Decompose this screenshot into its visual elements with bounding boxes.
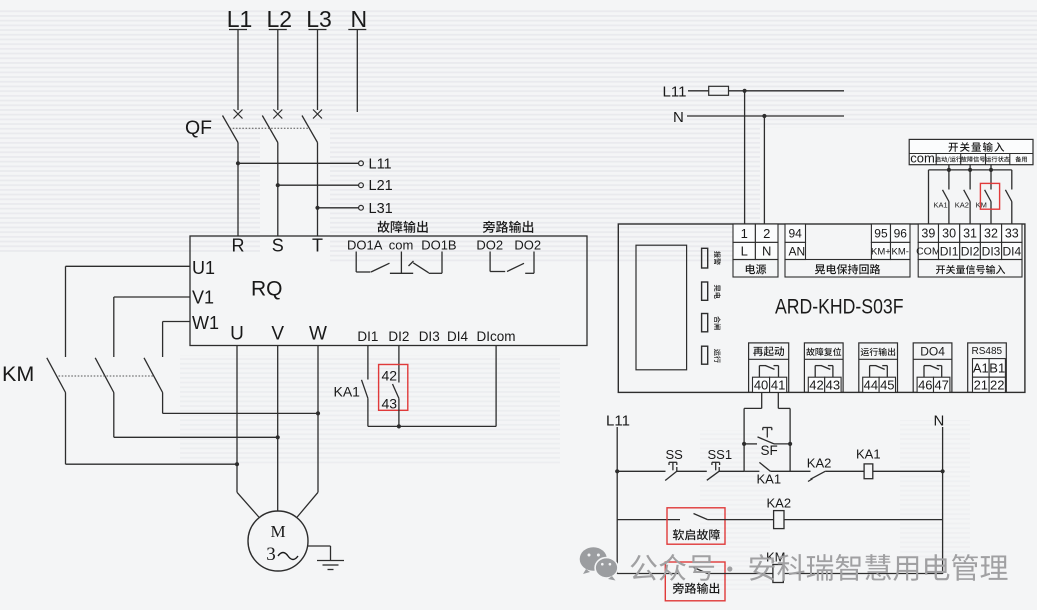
breaker QF pole 1 blade [223, 116, 239, 143]
terminal U [230, 324, 244, 345]
svg-text:31: 31 [963, 227, 977, 241]
svg-text:U: U [230, 324, 244, 345]
svg-text:KA1: KA1 [334, 384, 361, 400]
group 晃电保持回路 [785, 260, 910, 278]
terminal N [755, 242, 778, 259]
output group 运行输出 terminals 44 45 [859, 343, 898, 393]
svg-text:A1: A1 [973, 361, 989, 376]
wire DI1 drop [367, 346, 369, 380]
svg-text:V: V [271, 324, 284, 345]
wire KM pole2 to V [114, 393, 280, 440]
label 运行状态 [985, 156, 1009, 162]
svg-text:T: T [312, 236, 323, 256]
svg-text:KA1: KA1 [934, 201, 948, 210]
svg-text:1: 1 [741, 226, 748, 241]
contact KA1 to DI [934, 165, 949, 224]
breaker QF pole 2 contact mark [273, 110, 282, 119]
svg-text:L31: L31 [369, 201, 393, 217]
contact 42-43 on DI2 [382, 368, 399, 412]
node N control [673, 109, 844, 126]
terminal DO2 [476, 238, 503, 253]
svg-text:N: N [762, 244, 771, 259]
svg-text:SS: SS [666, 447, 684, 462]
wire DI2 to bus [398, 398, 400, 426]
wire U1 to KM [66, 266, 191, 357]
terminal R [232, 236, 245, 256]
left rail [616, 427, 618, 574]
svg-text:DI2: DI2 [388, 329, 409, 344]
svg-text:DO2: DO2 [514, 238, 541, 253]
svg-text:DO1A: DO1A [347, 238, 383, 253]
svg-text:47: 47 [934, 377, 948, 392]
terminal KM- [891, 242, 911, 259]
svg-text:N: N [934, 413, 945, 430]
breaker QF linkage [230, 127, 310, 129]
wire W1 to KM [163, 322, 190, 358]
svg-text:42: 42 [809, 377, 823, 392]
svg-text:43: 43 [826, 377, 840, 392]
output group 再起动 terminals 40 41 [749, 343, 789, 393]
right rail [942, 427, 944, 574]
node L11 ladder [606, 413, 630, 430]
svg-text:2: 2 [763, 226, 770, 241]
svg-text:L11: L11 [663, 84, 687, 101]
node N ladder [934, 413, 945, 430]
highlight box 旁路输出 [665, 562, 725, 601]
svg-text:KA1: KA1 [757, 472, 782, 487]
supply terminal N [348, 6, 367, 32]
contact spare to DI [1005, 170, 1011, 224]
svg-text:32: 32 [984, 227, 998, 241]
highlight box 42-43 [379, 365, 408, 411]
wire DI common bus [368, 424, 496, 428]
wire DIcom drop [495, 346, 497, 427]
relay contact DO1B [413, 252, 442, 274]
svg-text:DI4: DI4 [447, 329, 469, 344]
wire rung1 c [719, 470, 744, 472]
contact 旁路输出 [673, 567, 720, 593]
terminal 94 [785, 224, 806, 242]
svg-text:KA2: KA2 [807, 456, 832, 471]
relay contact DO1A [356, 252, 389, 273]
svg-text:44: 44 [864, 377, 878, 392]
terminal 2 [755, 224, 778, 242]
svg-text:L2: L2 [267, 6, 293, 32]
label 故障信号 [961, 156, 985, 162]
svg-text:L21: L21 [369, 178, 393, 194]
terminal label DI2 [960, 242, 981, 259]
node L11 control [663, 84, 687, 101]
group 电源 [733, 260, 778, 278]
contactor KM pole 2 blade [95, 358, 114, 393]
terminal S [272, 236, 284, 256]
breaker QF pole 2 blade [262, 116, 278, 143]
wire rung1 a [615, 469, 665, 473]
svg-text:DI1: DI1 [940, 244, 959, 258]
label RQ [251, 278, 283, 301]
terminal DI3 [419, 329, 440, 344]
contactor KM pole 3 blade [144, 358, 163, 393]
wire V to motor [277, 346, 279, 512]
watermark wechat icon [580, 547, 618, 580]
contact KA2 to DI [955, 165, 970, 224]
wire V1 to KM [114, 297, 190, 357]
display panel [636, 245, 687, 370]
terminal label COM [916, 242, 941, 259]
svg-text:43: 43 [382, 396, 398, 412]
supply terminal L2 [267, 6, 293, 32]
svg-text:3: 3 [266, 544, 276, 565]
node L31 tap [315, 201, 392, 217]
svg-text:96: 96 [894, 227, 908, 241]
motor M 3~ [248, 511, 308, 571]
contact KA2 rung1 [807, 456, 832, 482]
terminal 30 [939, 224, 960, 242]
contactor KM linkage [59, 375, 154, 377]
terminal U1 [192, 258, 215, 278]
terminal T [312, 236, 323, 256]
coil KA1 [856, 447, 881, 479]
svg-text:KM-: KM- [892, 246, 909, 257]
svg-text:95: 95 [874, 227, 888, 241]
svg-text:30: 30 [942, 227, 956, 241]
terminal 39 [918, 224, 938, 242]
terminal label DI4 [1002, 242, 1022, 259]
svg-text:40: 40 [754, 377, 768, 392]
wire rung2 c [784, 519, 943, 521]
svg-text:L1: L1 [227, 6, 253, 32]
svg-text:QF: QF [185, 117, 212, 139]
svg-text:COM: COM [916, 246, 941, 258]
wire rung1 b [677, 470, 707, 472]
label KM [2, 362, 34, 386]
svg-text:KM: KM [976, 201, 987, 210]
wire com bus [929, 168, 1012, 224]
supply terminal L3 [306, 6, 332, 32]
svg-text:com: com [910, 150, 935, 165]
terminal DO1A [347, 238, 383, 253]
output group RS485 [968, 343, 1007, 393]
wire 41 down [778, 392, 790, 471]
pushbutton SF [742, 428, 792, 459]
indicator 运行 [702, 346, 721, 364]
terminal DI1 [357, 329, 378, 344]
terminal 31 [960, 224, 981, 242]
label ARD-KHD-S03F [775, 296, 904, 319]
svg-text:DI3: DI3 [419, 329, 440, 344]
pushbutton SS1 [707, 447, 732, 480]
wire L11 to terminal 1 [744, 91, 746, 225]
wire L2 to QF [277, 30, 279, 111]
wire rung2 a [617, 519, 680, 521]
node L11 tap [236, 156, 392, 172]
output group DO4 terminals 46 47 [913, 343, 952, 393]
wire W to motor [297, 346, 318, 518]
terminal 1 [733, 224, 755, 242]
terminal label DI1 [939, 242, 960, 259]
terminal 32 [980, 224, 1001, 242]
breaker QF pole 3 blade [302, 116, 318, 143]
svg-text:21: 21 [974, 377, 988, 392]
wire L3 to QF [317, 30, 319, 111]
svg-text:L: L [741, 244, 748, 259]
terminal com [389, 238, 414, 253]
terminal DO1B [421, 238, 456, 253]
svg-text:DI4: DI4 [1002, 244, 1021, 258]
svg-text:AN: AN [789, 245, 806, 259]
relay contact KA1 on DI1 [334, 380, 368, 400]
svg-text:42: 42 [382, 368, 398, 384]
group 开关量信号输入 [918, 260, 1022, 278]
wire QF to terminal S [277, 143, 279, 237]
terminal label DI3 [980, 242, 1001, 259]
wire rung3 a [617, 573, 680, 575]
wire rung1 f [873, 469, 945, 473]
svg-text:RQ: RQ [251, 278, 283, 301]
label QF [185, 117, 212, 139]
svg-text:ARD-KHD-S03F: ARD-KHD-S03F [775, 296, 904, 319]
terminal V1 [192, 288, 214, 308]
pushbutton SS [665, 447, 683, 481]
label 备用 [1015, 156, 1027, 162]
terminal W [309, 324, 327, 345]
terminal KM+ [871, 242, 891, 259]
fuse FU [688, 86, 844, 95]
wire N down [356, 30, 358, 113]
wire QF to terminal R [237, 143, 239, 237]
device ARD-KHD-S03F box [618, 224, 1025, 392]
breaker QF pole 3 contact mark [313, 110, 322, 119]
svg-text:33: 33 [1005, 227, 1019, 241]
svg-text:L11: L11 [369, 156, 392, 172]
wire rung2 b [708, 519, 774, 521]
svg-text:B1: B1 [989, 361, 1005, 376]
svg-text:22: 22 [990, 377, 1004, 392]
highlight box 软启故障 [667, 508, 725, 544]
wire KM pole3 to W [163, 393, 321, 416]
highlight box KM contact [980, 183, 999, 209]
wire N to terminal 2 [763, 116, 765, 225]
svg-text:L11: L11 [606, 413, 630, 430]
relay contact com pole [390, 252, 414, 274]
svg-text:W1: W1 [192, 313, 219, 333]
svg-text:DI2: DI2 [961, 244, 980, 258]
svg-text:KA1: KA1 [856, 447, 881, 462]
terminal L [733, 242, 755, 259]
contact KA1 rung1 [744, 462, 781, 486]
terminal DIcom [476, 329, 515, 344]
svg-text:41: 41 [771, 377, 785, 392]
svg-text:DI3: DI3 [982, 244, 1001, 258]
svg-text:N: N [350, 6, 367, 32]
wire rung1 e [825, 470, 864, 472]
watermark text [631, 554, 1008, 581]
svg-text:L3: L3 [306, 6, 332, 32]
wire DI1 to bus [367, 398, 369, 426]
label 开关量输入 [949, 142, 1005, 152]
svg-text:DIcom: DIcom [476, 329, 515, 344]
svg-text:DO4: DO4 [920, 344, 945, 358]
svg-text:RS485: RS485 [972, 346, 1003, 357]
svg-text:com: com [389, 238, 414, 253]
terminal AN [785, 242, 806, 259]
contact 软启故障 [673, 514, 720, 541]
label fault output 故障输出 [378, 221, 428, 233]
contactor KM pole 1 blade [47, 358, 66, 393]
soft starter RQ box [190, 236, 587, 346]
indicator 报警 [702, 248, 721, 268]
wire U to motor [237, 346, 259, 518]
output group 故障复位 terminals 42 43 [804, 343, 843, 393]
wire KM pole1 to U [66, 393, 240, 467]
breaker QF pole 1 contact mark [234, 110, 243, 119]
svg-text:SF: SF [761, 443, 778, 458]
coil KA2 [767, 496, 792, 529]
terminal 96 [891, 224, 911, 242]
label com [910, 150, 935, 165]
label bypass output 旁路输出 [483, 221, 533, 233]
box 开关量输入 header [909, 139, 1033, 164]
svg-text:M: M [270, 522, 285, 541]
svg-text:45: 45 [880, 377, 894, 392]
wire QF to terminal T [317, 143, 319, 237]
svg-text:39: 39 [921, 227, 935, 241]
contact KM to DI [976, 165, 991, 224]
svg-text:N: N [673, 109, 684, 126]
svg-text:SS1: SS1 [708, 447, 733, 462]
wire rung1 d [770, 470, 810, 472]
coil KM [766, 550, 786, 583]
terminal 33 [1002, 224, 1022, 242]
terminal W1 [192, 313, 219, 333]
indicator 晃电 [702, 282, 721, 300]
label 启动/运行 [935, 156, 962, 162]
wire L1 to QF [237, 30, 239, 111]
terminal DI2 [388, 329, 409, 344]
relay contact DO2 [490, 252, 534, 274]
svg-text:94: 94 [789, 227, 803, 241]
terminal 95 [871, 224, 890, 242]
wire rung3 b [708, 573, 773, 575]
svg-text:R: R [232, 236, 245, 256]
svg-text:DO2: DO2 [476, 238, 503, 253]
svg-text:DI1: DI1 [357, 329, 378, 344]
svg-text:KM: KM [2, 362, 34, 386]
svg-text:46: 46 [918, 377, 932, 392]
ground [308, 546, 345, 570]
svg-text:U1: U1 [192, 258, 215, 278]
wire rung3 c [783, 573, 942, 575]
terminal DI4 [447, 329, 469, 344]
terminal DO2 [514, 238, 541, 253]
svg-text:KM+: KM+ [871, 246, 891, 257]
supply terminal L1 [227, 6, 253, 32]
svg-text:S: S [272, 236, 284, 256]
node L21 tap [276, 178, 393, 194]
svg-text:KA2: KA2 [955, 201, 969, 210]
svg-text:V1: V1 [192, 288, 214, 308]
indicator 合闸 [702, 314, 721, 332]
svg-text:W: W [309, 324, 327, 345]
wire DI2 drop [398, 346, 400, 383]
terminal V [271, 324, 284, 345]
svg-text:KA2: KA2 [767, 496, 792, 511]
svg-text:DO1B: DO1B [421, 238, 456, 253]
wire 40 down [744, 392, 762, 471]
